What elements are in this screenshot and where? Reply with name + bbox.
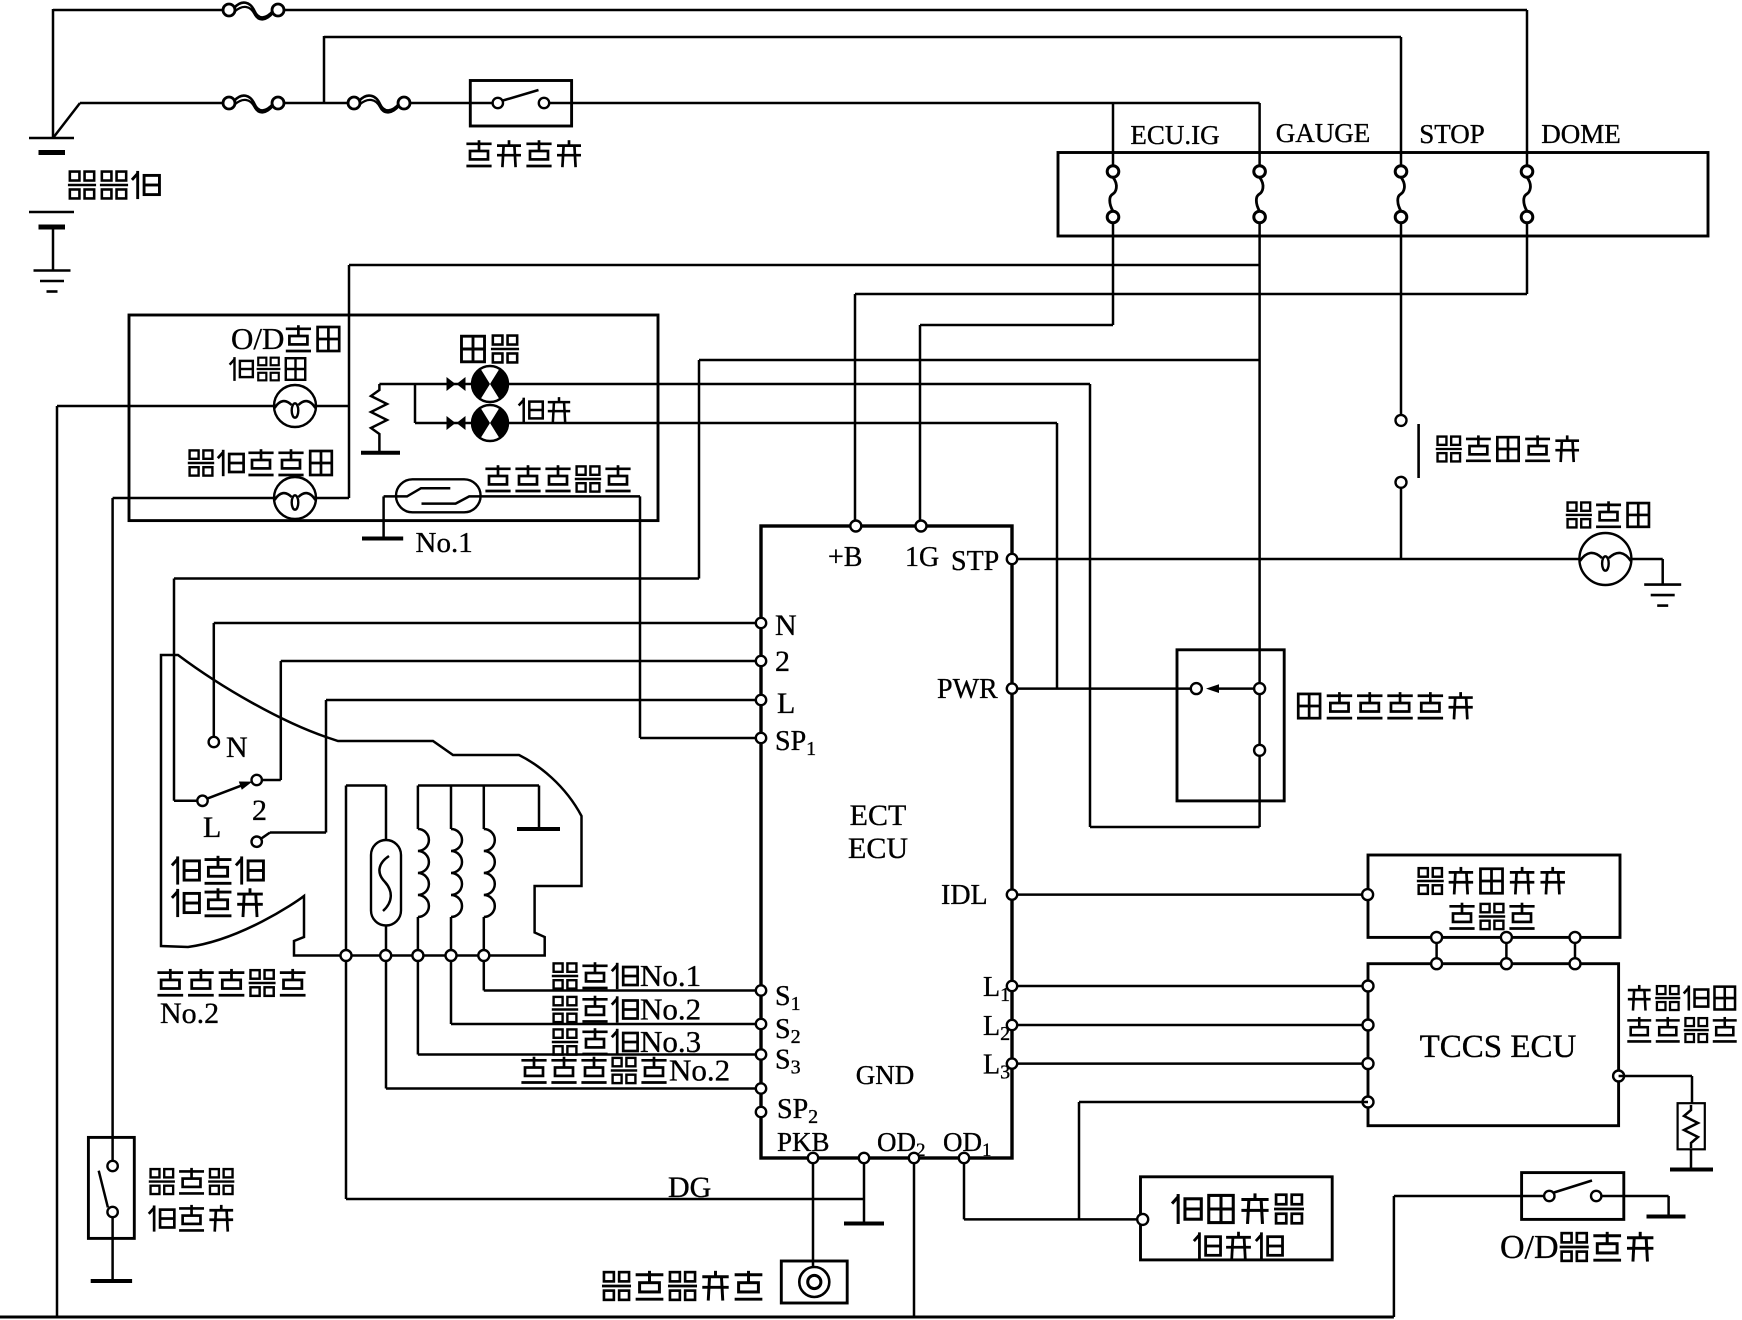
lamp: stop lamp (停车灯)	[1579, 533, 1631, 585]
valve bowtie: normal	[447, 377, 456, 391]
ground: coolant sensor	[1670, 1168, 1713, 1172]
coolant temp sensor resistor	[1678, 1103, 1705, 1149]
svg-text:1G: 1G	[905, 542, 939, 573]
battery	[29, 137, 74, 140]
wire: brake warning lamp feed	[113, 497, 274, 500]
wire: resistor to solenoid rows	[379, 383, 415, 386]
label: 电磁阀No.2	[552, 997, 578, 1022]
wire: PKB pin to lead-in socket	[812, 1158, 815, 1268]
wire: GND pin to ground and DG	[863, 1158, 866, 1222]
wire: speed sensor No.1 to ground	[382, 496, 385, 537]
label: 普通 (normal)	[461, 336, 484, 362]
mode switch contacts	[1191, 683, 1202, 694]
svg-text:No.2: No.2	[640, 992, 701, 1027]
fuse F3	[348, 97, 360, 109]
wire: stop lamp to ground	[1631, 558, 1662, 561]
wire: STOP fuse to stop light switch	[1400, 222, 1403, 416]
transmission connector rail contacts	[341, 950, 352, 961]
svg-text:N: N	[775, 609, 797, 642]
svg-text:No.2: No.2	[160, 997, 219, 1030]
label: 停车制	[149, 1169, 175, 1194]
svg-text:GND: GND	[856, 1060, 915, 1090]
neutral switch contact L pivot	[197, 796, 207, 806]
svg-text:TCCS ECU: TCCS ECU	[1420, 1029, 1577, 1065]
label: 电磁阀No.3	[552, 1029, 578, 1054]
svg-text:DG: DG	[668, 1171, 711, 1204]
parking brake contacts	[107, 1161, 117, 1171]
svg-text:No.2: No.2	[669, 1053, 730, 1088]
bottom common rail	[0, 1316, 1394, 1319]
wire: power solenoid to PWR net	[1056, 423, 1059, 689]
coil: No.1 solenoid coil	[483, 786, 486, 830]
svg-text:L: L	[203, 811, 221, 844]
wire: coolant temp sensor	[1619, 1075, 1692, 1078]
connector circles throttle-TCCS	[1431, 932, 1442, 943]
wire: STP to stop lamp	[1012, 558, 1579, 561]
fuse DOME	[1521, 166, 1533, 178]
label: 动力 (power)	[519, 398, 543, 423]
fuse GAUGE	[1254, 166, 1266, 178]
wire: OD2 to bottom rail	[913, 1158, 916, 1317]
fuse box	[1058, 153, 1708, 237]
svg-text:O/D: O/D	[231, 321, 284, 356]
wire: normal solenoid row	[415, 383, 473, 386]
label: 度传感器	[1627, 1017, 1651, 1042]
ground: ECU GND	[844, 1222, 884, 1226]
O/D main switch	[1394, 1195, 1549, 1198]
wire: DG diagnostic line	[346, 1198, 864, 1201]
label: 引入线插座	[602, 1272, 631, 1300]
svg-text:PKB: PKB	[777, 1127, 830, 1157]
wire: GAUGE branch to neutral start switch L	[699, 359, 1260, 362]
svg-text:No.1: No.1	[640, 958, 701, 993]
stop light switch	[1396, 415, 1407, 426]
coil: No.2 solenoid coil	[450, 786, 453, 830]
neutral switch lower contact	[252, 837, 262, 847]
lead-in socket box (引入线插座)	[781, 1261, 847, 1303]
svg-text:2: 2	[775, 645, 790, 678]
wire: DOME fuse feed	[1526, 10, 1529, 166]
lamp box (O/D indicator + brake warning)	[129, 315, 658, 521]
coil group top bus	[418, 784, 539, 787]
wire: ignition feed	[80, 102, 223, 105]
label: 动开关	[149, 1205, 175, 1231]
fuse STOP	[1395, 166, 1407, 178]
ground: speed sensor No.1	[362, 537, 403, 541]
fuse ECU.IG	[1107, 166, 1119, 178]
wire: L2 to TCCS	[1012, 1024, 1368, 1027]
fuse F1 (top feed to DOME)	[223, 4, 235, 16]
label: ignition switch (点火开关)	[466, 140, 491, 166]
neutral switch wiper arrow	[207, 785, 244, 799]
solenoid: normal (普通)	[472, 366, 508, 402]
label: 节气门位置	[1417, 868, 1444, 894]
cruise control computer box	[1141, 1177, 1333, 1260]
wire: S1 to ECU	[484, 989, 761, 992]
neutral switch contact N	[209, 737, 219, 747]
wire: ECU pin L to neutral switch	[326, 699, 761, 702]
svg-text:ECT: ECT	[850, 799, 907, 832]
label: 动开关	[172, 889, 200, 917]
svg-text:N: N	[226, 731, 248, 764]
svg-text:No.1: No.1	[416, 527, 473, 559]
parking brake switch box	[88, 1137, 134, 1238]
throttle sensor connector stubs	[1435, 937, 1438, 963]
label: 空档起	[172, 856, 200, 884]
ignition switch box	[470, 81, 571, 127]
neutral switch contact 2	[252, 775, 262, 785]
wire: ECU pin N to neutral switch	[214, 622, 761, 625]
ground: coils common	[517, 827, 560, 831]
valve bowtie: power	[447, 416, 456, 430]
coil: No.3 solenoid coil	[417, 786, 420, 830]
wire: speed sensor No.1 signal to SP1	[481, 495, 640, 498]
wire: battery positive top feed	[53, 9, 223, 12]
label: stop light switch (停车灯开关)	[1436, 437, 1462, 462]
wire: battery to ignition feed diagonal	[53, 103, 80, 138]
wire: PWR to mode select switch	[1012, 687, 1196, 690]
svg-text:STP: STP	[951, 546, 999, 577]
mode select switch box	[1177, 650, 1284, 801]
label: battery (蓄电池)	[68, 172, 96, 199]
wire: S2 to ECU	[451, 1023, 761, 1026]
wire: IDL to throttle position sensor	[1012, 893, 1368, 896]
label: 计算机	[1194, 1232, 1221, 1259]
ground: battery	[34, 269, 71, 272]
O/D switch contacts and arm	[1544, 1191, 1554, 1201]
label: 指示灯	[230, 357, 253, 381]
label: 速度传感器 (speed sensor No.1)	[485, 465, 510, 491]
transmission / neutral start switch housing outline	[161, 655, 582, 956]
pin circle TCCS right (coolant)	[1613, 1071, 1624, 1082]
label: 模式选择开关	[1298, 694, 1320, 718]
label: 停车灯	[1566, 502, 1592, 527]
label: 电磁阀No.1	[552, 963, 578, 988]
fuse F2	[223, 97, 235, 109]
svg-text:ECU.IG: ECU.IG	[1130, 120, 1219, 150]
svg-text:PWR: PWR	[937, 674, 998, 705]
label: 速度传感器No.2	[521, 1057, 546, 1083]
ECU pin contact circles	[756, 618, 766, 628]
label: 制动警报灯	[188, 450, 214, 475]
parking brake switch arm	[99, 1171, 108, 1208]
wire: O/D indicator lamp feed	[57, 405, 274, 408]
svg-text:2: 2	[252, 794, 267, 827]
node: branch to STOP fuse feed	[323, 36, 326, 103]
wire: S3 to ECU	[418, 1053, 761, 1056]
svg-text:STOP: STOP	[1419, 119, 1485, 149]
ignition switch contacts and arm	[493, 98, 503, 108]
wire: ECU.IG output to 1G pin	[1112, 222, 1115, 325]
wire: second feed to STOP fuse	[324, 36, 1401, 39]
ground: O/D switch	[1647, 1215, 1686, 1219]
ECT ECU box	[761, 526, 1012, 1158]
wire: power solenoid row	[415, 422, 473, 425]
svg-text:ECU: ECU	[848, 832, 908, 865]
svg-text:O/D: O/D	[1500, 1229, 1559, 1266]
svg-text:IDL: IDL	[941, 880, 988, 911]
wire: battery riser	[52, 9, 55, 139]
label: 传感器	[1449, 903, 1474, 929]
wire: normal solenoid to mode switch	[1089, 384, 1092, 827]
svg-text:GAUGE: GAUGE	[1276, 118, 1371, 148]
ground: stop lamp	[1644, 583, 1681, 586]
pin circles TCCS left	[1362, 889, 1373, 900]
mode switch wiper arrow	[1216, 687, 1255, 690]
wire: L3 to TCCS	[1012, 1062, 1368, 1065]
ground: parking brake switch	[91, 1279, 132, 1283]
throttle position sensor box	[1368, 855, 1620, 937]
wire: ECU pin 2 to neutral switch	[281, 660, 761, 663]
resistor for pattern lamps	[371, 384, 387, 451]
lamp: O/D cut indicator	[274, 385, 316, 427]
label: 速度传感器 (No.2)	[157, 969, 183, 995]
lamp: brake warning	[274, 477, 316, 519]
TCCS ECU box	[1368, 964, 1619, 1126]
speed sensor No.2 pickup	[346, 784, 386, 787]
wire: OD1 to cruise computer and TCCS	[963, 1158, 966, 1219]
speed sensor No.1 pickup	[396, 479, 481, 512]
wire: inside ignition switch	[470, 102, 493, 105]
wire: STOP fuse feed	[1400, 37, 1403, 166]
svg-text:DOME: DOME	[1541, 119, 1621, 149]
svg-text:L: L	[777, 687, 795, 720]
ground: resistor	[361, 451, 400, 455]
wire: GAUGE output trunk to mode select switch	[1258, 222, 1261, 750]
label: 冷却液温	[1628, 985, 1651, 1011]
wire: GAUGE branch to indicator lamps	[349, 264, 1260, 267]
svg-text:+B: +B	[828, 542, 862, 573]
wire: SP2 to ECU	[386, 1087, 761, 1090]
solenoid: power (动力)	[472, 405, 508, 441]
wire: L1 to TCCS	[1012, 985, 1368, 988]
label: 巡行控制	[1172, 1194, 1201, 1224]
wire: GAUGE fuse feed	[1258, 103, 1261, 166]
wire: ignition output to fuse box	[572, 102, 1260, 105]
wire: DOME output to +B pin	[1526, 222, 1529, 294]
wire: ECU.IG fuse feed	[1112, 103, 1115, 166]
